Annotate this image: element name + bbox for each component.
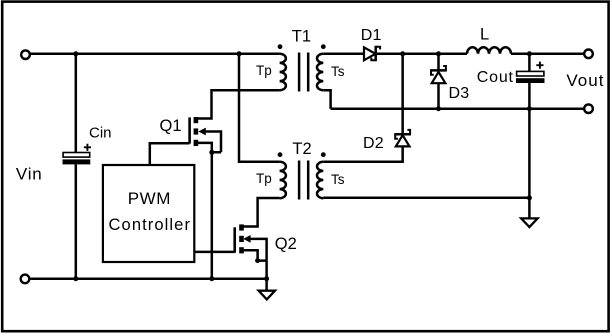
svg-text:Q2: Q2 — [275, 235, 297, 253]
svg-text:Vout: Vout — [566, 71, 604, 90]
svg-text:D3: D3 — [449, 85, 470, 102]
svg-text:Vin: Vin — [16, 165, 43, 184]
svg-text:Cout: Cout — [477, 69, 514, 86]
svg-text:Tp: Tp — [256, 63, 272, 78]
svg-text:PWM: PWM — [128, 189, 171, 208]
svg-text:T1: T1 — [292, 28, 311, 46]
svg-text:L: L — [480, 25, 489, 43]
svg-text:Controller: Controller — [109, 216, 192, 234]
svg-text:D1: D1 — [361, 27, 382, 44]
svg-text:Ts: Ts — [331, 64, 345, 79]
svg-text:Tp: Tp — [256, 171, 272, 186]
svg-text:Ts: Ts — [331, 172, 345, 187]
svg-text:Q1: Q1 — [160, 117, 182, 135]
svg-text:Cin: Cin — [89, 124, 112, 141]
svg-text:T2: T2 — [292, 140, 311, 158]
svg-text:D2: D2 — [363, 135, 384, 152]
